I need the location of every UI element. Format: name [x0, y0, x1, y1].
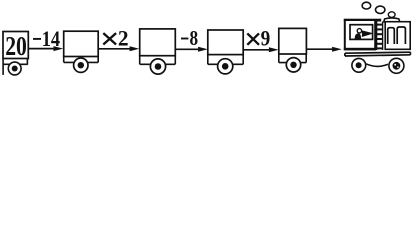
locomotive chimney cap [384, 18, 400, 22]
connecting rod between loco wheels [366, 64, 388, 67]
wagon B3 undercarriage legs and axle bar [140, 56, 176, 65]
svg-text:9: 9 [261, 26, 271, 51]
arrow A3 [176, 47, 208, 52]
locomotive hood [385, 22, 410, 50]
operation label -14 [33, 26, 60, 51]
locomotive cab window frame [350, 25, 373, 40]
wagon B4 undercarriage legs and axle bar [208, 55, 243, 65]
driver body [355, 33, 362, 39]
locomotive ladder grille [377, 22, 383, 51]
wagon B5 undercarriage legs and axle bar [279, 54, 306, 63]
locomotive wheel rear [352, 58, 366, 72]
wheel W5 [286, 58, 300, 72]
arrow A2 [99, 46, 140, 51]
operation label -8 [181, 26, 198, 50]
locomotive smoke puff large [362, 2, 371, 9]
locomotive smoke puff middle [376, 6, 385, 13]
wagon B2 undercarriage legs and axle bar [64, 57, 98, 63]
operation label x2 [103, 25, 128, 50]
driver head [357, 29, 361, 33]
wagon box B3 [140, 29, 176, 56]
wagon B1 undercarriage legs and axle bar [3, 59, 27, 75]
locomotive smoke puff small [388, 12, 395, 18]
arrow A5 to locomotive [307, 47, 342, 52]
operation label x9 [247, 26, 270, 51]
wagon box B5 [279, 28, 307, 54]
hood slot window left [388, 28, 395, 44]
arrow A1 [29, 46, 64, 51]
wagon box B2 [64, 31, 98, 56]
locomotive cab roof slab [344, 19, 381, 22]
wheel W1 [8, 62, 21, 75]
locomotive cab bottom bar [344, 48, 376, 50]
hood slot window right [397, 27, 405, 44]
svg-text:14: 14 [42, 26, 60, 51]
wheel W2 [74, 58, 88, 72]
svg-text:20: 20 [5, 31, 27, 61]
wagon box B1 [3, 32, 28, 59]
wagon box B4 [208, 30, 243, 55]
wheel W4 [218, 59, 233, 74]
locomotive wheel front [389, 58, 404, 73]
locomotive chassis frame [345, 52, 411, 56]
arrow A4 [244, 47, 279, 52]
svg-text:2: 2 [118, 25, 129, 50]
driver waving arm flag [362, 30, 374, 37]
value label 20 [5, 31, 27, 61]
wheel W3 [150, 59, 165, 74]
locomotive cab body [345, 20, 375, 49]
svg-text:8: 8 [190, 26, 199, 50]
